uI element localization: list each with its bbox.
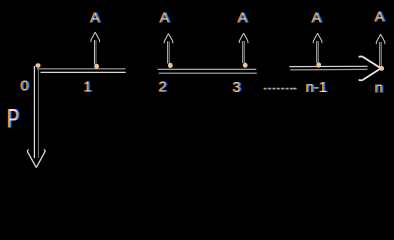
node 3 — [243, 63, 248, 68]
label A at node n-1 — [312, 10, 322, 27]
force arrow A at node 3 — [239, 33, 248, 43]
label 0 — [21, 78, 29, 95]
beam segment 2-3 top line — [158, 68, 257, 70]
wire: vertical shaft of load P (double line) — [33, 66, 35, 158]
label A at node 1 — [90, 10, 100, 27]
label n — [375, 80, 383, 97]
force arrow A at node 1 — [91, 32, 100, 42]
force arrow A at node 2 — [164, 34, 173, 44]
node 2 — [168, 63, 173, 68]
beam segment n-1 to n bottom line — [290, 68, 367, 71]
svg-text:P: P — [7, 103, 19, 133]
node 1 — [94, 64, 99, 69]
beam segment 0-1 bottom line — [41, 71, 126, 73]
arrowhead of load P (open chevron down) — [27, 149, 45, 167]
big axial arrowhead at node n (open chevron right) — [359, 56, 381, 80]
svg-text:A: A — [160, 10, 170, 27]
label A at node n — [375, 9, 385, 26]
label n-1 — [306, 79, 328, 96]
svg-text:0: 0 — [21, 78, 29, 95]
ellipsis dots between 3 and n-1 — [265, 88, 297, 90]
node n-1 — [316, 62, 321, 67]
svg-text:A: A — [312, 10, 322, 27]
svg-text:n-1: n-1 — [306, 79, 328, 96]
svg-text:A: A — [90, 10, 100, 27]
label A at node 2 — [160, 10, 170, 27]
beam segment n-1 to n top line — [290, 65, 368, 67]
label 1 — [84, 79, 92, 96]
label A at node 3 — [238, 10, 248, 27]
node 0 — [35, 63, 40, 67]
beam segment 0-1 top line — [37, 68, 126, 70]
svg-text:3: 3 — [233, 79, 241, 96]
svg-text:n: n — [375, 80, 383, 97]
node n — [379, 66, 384, 71]
svg-text:A: A — [375, 9, 385, 26]
force arrow A at node n — [376, 34, 385, 44]
svg-text:2: 2 — [159, 79, 167, 96]
svg-text:1: 1 — [84, 79, 92, 96]
label 2 — [159, 79, 167, 96]
label 3 — [233, 79, 241, 96]
force arrow A at node n-1 — [313, 33, 322, 43]
label P — [7, 103, 19, 133]
beam segment 2-3 bottom line — [159, 72, 257, 74]
svg-text:A: A — [238, 10, 248, 27]
